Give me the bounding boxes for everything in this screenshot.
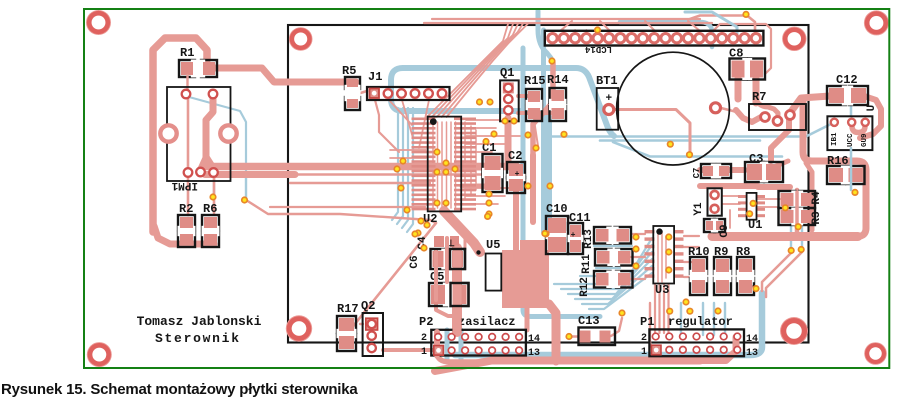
capacitor C11 <box>568 223 583 239</box>
relay mount right <box>220 125 236 141</box>
svg-text:R5: R5 <box>342 64 356 78</box>
wire thin horizontal y207 <box>270 206 425 208</box>
wire blue battery lower <box>613 142 782 157</box>
svg-text:C8: C8 <box>729 47 743 61</box>
wire P2 pin1 column redraw <box>434 332 440 355</box>
wire bottom band <box>435 361 700 372</box>
svg-text:R11: R11 <box>581 254 593 274</box>
svg-text:R13: R13 <box>583 229 595 249</box>
frame crisp corners <box>287 25 289 60</box>
battery circle <box>617 52 730 165</box>
wire blue vertical x543 <box>541 30 546 232</box>
copper pour U5 <box>502 250 549 308</box>
capacitor C3 <box>745 162 764 182</box>
wire top thin traces above LCD connector <box>432 18 700 20</box>
svg-text:R10: R10 <box>688 245 710 259</box>
svg-text:regulator: regulator <box>668 315 733 329</box>
IC U1 <box>738 195 747 198</box>
mount ring board TR <box>864 10 889 35</box>
wire C8 drops <box>735 78 742 99</box>
wire U3 side stubs <box>631 233 645 235</box>
wire R3 R4 gap redraw <box>795 192 799 231</box>
wire C4 C5 column redraws <box>453 250 462 331</box>
resistor R17 <box>337 316 356 333</box>
capacitor C12 <box>827 86 846 105</box>
svg-text:IPM1: IPM1 <box>171 179 198 191</box>
svg-text:R2: R2 <box>179 202 193 216</box>
capacitor C5 bracket redraw <box>451 283 469 306</box>
wire R7 pin3 to C3 <box>771 114 789 161</box>
svg-text:U1: U1 <box>748 218 762 232</box>
capacitor C8 <box>730 59 747 80</box>
wire blue U3 fan left <box>554 238 652 284</box>
wire right diagonal pair <box>762 253 791 291</box>
wire R16 top bus loop <box>803 100 866 228</box>
wire U3 interior hairlines <box>657 232 659 282</box>
wire C1 entry stubs <box>462 166 487 171</box>
mount ring frame BL <box>286 315 312 341</box>
svg-text:U5: U5 <box>486 238 500 252</box>
resistor R10 <box>690 257 707 274</box>
wire blue C12 drop <box>850 104 853 116</box>
svg-text:R17: R17 <box>337 302 359 316</box>
wire blue top-left drop <box>538 11 551 58</box>
wire blue long horizontals <box>545 125 830 137</box>
svg-text:Q2: Q2 <box>361 299 375 313</box>
wire J1 pin1 down <box>375 100 399 152</box>
wire C13 stub <box>611 318 622 336</box>
svg-text:R15: R15 <box>524 74 546 88</box>
capacitor C13 <box>579 328 616 346</box>
svg-text:R3: R3 <box>811 211 823 225</box>
svg-text:14: 14 <box>528 334 540 345</box>
vias <box>209 193 216 200</box>
svg-text:C9: C9 <box>719 224 731 237</box>
capacitor C6 C4 <box>434 236 444 247</box>
svg-text:C7: C7 <box>692 168 702 179</box>
capacitor C2 <box>507 162 525 178</box>
connector P1 <box>649 329 744 356</box>
resistor R6 <box>202 215 219 230</box>
svg-text:J1: J1 <box>368 70 382 84</box>
svg-text:R16: R16 <box>827 154 849 168</box>
caption <box>1 381 358 398</box>
wire U2 bus to top <box>427 24 508 117</box>
wire blue bus U2 left <box>392 108 398 220</box>
resistor R3 <box>779 208 796 225</box>
svg-text:1: 1 <box>641 347 647 358</box>
wire Q2 to P2 <box>383 348 434 352</box>
wire blue bus J1 wrap lower <box>391 68 549 228</box>
wire pink drop to C2 <box>533 63 553 160</box>
mount ring frame TL <box>289 27 313 51</box>
transistor Q1 <box>500 80 519 121</box>
wire blue vertical x523 <box>523 48 600 317</box>
IC U2 <box>412 118 436 121</box>
board outline <box>84 9 889 368</box>
svg-text:R4: R4 <box>811 191 823 205</box>
resistor R4 <box>779 191 796 208</box>
svg-text:+: + <box>515 170 520 179</box>
crystal Y1 <box>708 188 722 215</box>
connector LCD1 <box>545 31 764 46</box>
regulator module U <box>827 116 872 150</box>
svg-text:R7: R7 <box>752 90 766 104</box>
wire R7 to C12 <box>790 96 830 113</box>
mount ring board TL <box>86 10 111 35</box>
wire Y1 U1 cluster <box>758 184 790 190</box>
capacitor C10 <box>546 216 568 235</box>
resistor R16 <box>827 166 845 184</box>
wire relay left return <box>154 226 214 244</box>
wire blue to P1 <box>680 303 682 335</box>
mount ring frame BR <box>780 317 808 345</box>
wire pour to P2 bottom <box>549 304 556 361</box>
svg-text:P2: P2 <box>419 315 433 329</box>
svg-text:R1: R1 <box>180 46 194 60</box>
svg-text:C2: C2 <box>508 149 522 163</box>
svg-text:BT1: BT1 <box>596 74 618 88</box>
trimmer R7 <box>749 104 806 130</box>
capacitor C1 <box>483 154 503 172</box>
wire Q1 down <box>505 118 512 164</box>
resistor R13 <box>594 227 611 244</box>
svg-text:C11: C11 <box>569 211 591 225</box>
wire thin horizontal bus 3 <box>290 182 430 184</box>
IC U5 <box>486 254 502 291</box>
svg-text:R8: R8 <box>736 245 750 259</box>
wire R5 to J1 pin1 <box>354 91 367 95</box>
svg-text:Sterownik: Sterownik <box>155 331 239 346</box>
wire C12 loop right <box>860 96 881 138</box>
resistor R2 <box>178 215 195 230</box>
svg-text:C10: C10 <box>546 202 568 216</box>
battery BT1 outline <box>597 88 619 130</box>
svg-text:P1: P1 <box>640 315 654 329</box>
svg-text:IB1: IB1 <box>831 132 839 146</box>
IC U3 <box>645 230 655 233</box>
svg-text:zasilacz: zasilacz <box>458 315 516 329</box>
resistor R9 <box>714 257 731 274</box>
relay pin bottom 2 <box>196 168 205 177</box>
resistor R5 <box>345 77 360 89</box>
resistor R15 <box>526 89 542 104</box>
svg-text:R12: R12 <box>579 277 591 297</box>
wire battery to R7 <box>721 108 740 113</box>
wire C2 right vertical <box>530 155 536 222</box>
resistor R14 <box>550 88 567 103</box>
connector P2 <box>431 330 526 356</box>
wire LCD pin stubs up <box>563 30 565 36</box>
mount ring frame TR <box>782 27 806 51</box>
relay pin bottom 1 <box>184 168 193 177</box>
capacitor C9 <box>704 219 715 232</box>
capacitor C5 <box>429 283 447 306</box>
wire module inner loop <box>852 123 865 133</box>
svg-text:C3: C3 <box>749 152 763 166</box>
wire frame-edge vertical <box>806 163 812 230</box>
svg-text:1: 1 <box>421 347 427 358</box>
wire Q1 R15 bridges <box>518 94 527 98</box>
relay mount left <box>160 125 176 141</box>
svg-text:C13: C13 <box>578 314 600 328</box>
wire C3 diagonals <box>700 167 745 173</box>
svg-text:2: 2 <box>641 333 647 344</box>
wire C12 R16 blue redraw <box>850 148 853 190</box>
wire relay pin stubs <box>187 98 190 170</box>
relay PM1 outline <box>167 87 231 181</box>
capacitor C4 bracket redraw <box>450 249 465 269</box>
svg-text:2: 2 <box>421 333 427 344</box>
resistor R11 <box>595 249 612 266</box>
resistor R8 <box>737 257 754 274</box>
wire U3 down to P1 <box>654 285 656 333</box>
svg-text:R6: R6 <box>203 202 217 216</box>
svg-text:UCC: UCC <box>847 133 855 147</box>
wire J1 pins down <box>389 100 412 125</box>
mount ring board BL <box>87 342 112 367</box>
svg-text:C6: C6 <box>409 255 421 268</box>
wire R3 R4 gap vertical <box>795 190 800 232</box>
svg-text:13: 13 <box>746 348 758 359</box>
relay pin top-right <box>209 90 218 99</box>
svg-text:13: 13 <box>528 348 540 359</box>
wire C8 to R7 pin2 <box>756 100 778 119</box>
svg-text:Tomasz Jablonski: Tomasz Jablonski <box>137 314 262 329</box>
battery pad <box>604 105 614 115</box>
battery right pad <box>711 103 721 113</box>
wire battery trace <box>613 110 690 155</box>
svg-text:R14: R14 <box>547 73 569 87</box>
svg-text:LCD14: LCD14 <box>584 44 612 54</box>
wire relay center <box>201 99 213 169</box>
svg-text:+: + <box>571 231 576 240</box>
svg-text:U: U <box>866 105 878 112</box>
wire U2 bottom to pour <box>444 211 480 252</box>
connector J1 <box>367 87 450 100</box>
mount ring board BR <box>864 342 887 365</box>
wire U2 area texture <box>466 119 500 121</box>
svg-text:Y1: Y1 <box>693 202 705 216</box>
wire U2 interior hairlines <box>432 122 434 208</box>
svg-text:R9: R9 <box>714 245 728 259</box>
wire blue R11 R12 steps <box>594 245 632 247</box>
svg-text:Q1: Q1 <box>500 66 514 80</box>
svg-text:C12: C12 <box>836 73 858 87</box>
transistor Q2 <box>363 313 383 356</box>
svg-text:GU9: GU9 <box>861 133 869 147</box>
inner module frame base <box>288 25 809 343</box>
relay pin top-left <box>182 90 191 99</box>
wire main horizontal bus 2 <box>205 171 295 178</box>
wire blue relay drops <box>213 176 215 196</box>
wire R8 stub <box>752 286 757 289</box>
capacitor C7 <box>701 164 715 178</box>
wire R1 to R5 J1 <box>210 68 356 82</box>
relay pin bottom 3 <box>209 168 218 177</box>
wire blue bottom bus <box>455 293 762 355</box>
wire blue top band mid <box>620 22 712 47</box>
wire main horizontal bus 1 <box>205 163 516 171</box>
svg-text:14: 14 <box>746 334 758 345</box>
svg-text:U3: U3 <box>655 283 669 297</box>
wire R1 feed loop <box>153 38 207 232</box>
wire long diagonal to Q2 <box>342 223 436 340</box>
P2 pin1 pad redraw <box>434 346 444 356</box>
wire blue bus J1 wrap upper <box>403 68 614 136</box>
resistor R12 <box>594 271 611 288</box>
resistor R1 <box>179 60 195 77</box>
